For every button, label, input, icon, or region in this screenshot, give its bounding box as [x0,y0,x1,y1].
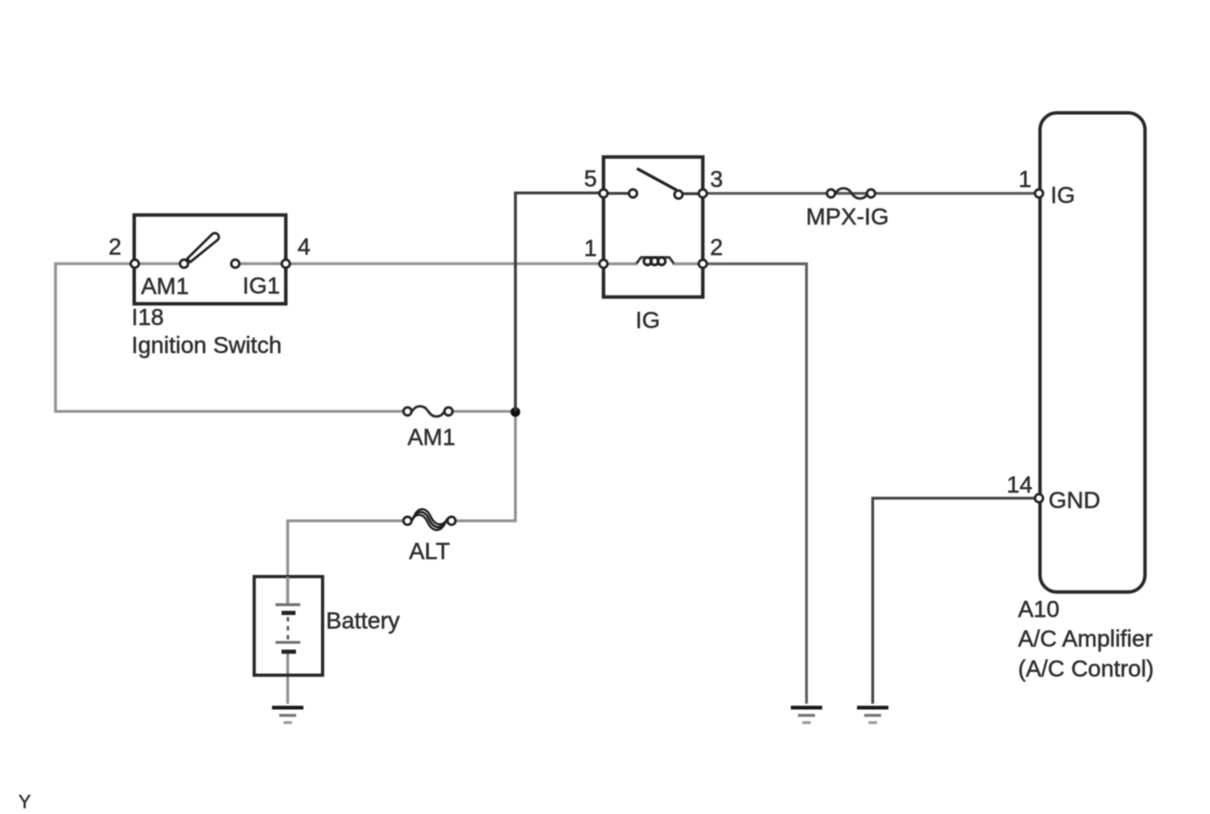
svg-text:14: 14 [1007,472,1033,498]
wire: ignition switch pin 4 to relay IG pin 1 [290,262,600,265]
terminal: relay pin 1 [599,260,607,268]
wire: battery internal top [286,577,289,603]
wire: relay IG pin 3 to amplifier pin 1 (MPX-IG net) [707,192,1035,195]
terminal: ignition AM1 contact [180,260,188,268]
wire: ignition switch pin 2 loop to fuse AM1 [56,264,403,412]
junction A [511,407,521,417]
svg-text:A/C Amplifier: A/C Amplifier [1018,626,1153,652]
svg-text:GND: GND [1049,487,1101,513]
battery plate long bottom [276,641,301,644]
terminal: relay fixed contact [629,189,637,197]
svg-text:(A/C Control): (A/C Control) [1018,656,1154,682]
wire: fuse ALT to battery positive [288,521,403,604]
wire: junction A up to relay IG pin 5 [515,193,600,412]
svg-text:2: 2 [710,234,723,260]
svg-text:2: 2 [109,234,122,260]
terminal: amplifier pin 14 GND [1035,494,1043,502]
svg-text:Ignition Switch: Ignition Switch [132,332,282,358]
wire: relay IG pin 2 to ground [707,264,807,704]
svg-text:A10: A10 [1018,596,1059,622]
svg-text:I18: I18 [132,304,164,330]
svg-text:Y: Y [19,791,31,812]
wire: relay contact row [604,192,630,195]
svg-text:AM1: AM1 [141,273,189,299]
fuse AM1 [403,406,452,416]
terminal: relay moving contact [674,191,682,199]
terminal: ignition pin 4 [282,260,290,268]
ground (battery) [272,708,303,723]
terminal: relay pin 5 [599,189,607,197]
terminal: relay pin 3 [699,189,707,197]
svg-text:5: 5 [584,166,597,192]
ground (amplifier GND) [857,708,888,723]
ignition switch I18 box [134,215,286,304]
relay switch blade [637,169,677,191]
svg-text:MPX-IG: MPX-IG [806,204,889,230]
wire: amplifier pin 14 GND to ground [873,498,1035,704]
svg-text:Battery: Battery [326,608,400,634]
battery B1 box [254,577,322,676]
battery dashed center [287,617,289,641]
terminal: amplifier pin 1 IG [1035,189,1043,197]
wire: relay coil row [604,262,638,265]
A/C amplifier A10 box [1040,113,1145,592]
svg-text:IG: IG [1051,182,1076,208]
svg-text:ALT: ALT [409,538,450,564]
wire: battery negative to ground [286,653,289,704]
svg-text:4: 4 [298,234,311,260]
svg-text:3: 3 [710,166,723,192]
ground (relay pin 2) [791,708,822,723]
fusible link ALT [403,509,455,530]
relay IG box [604,157,703,297]
fuse MPX-IG [827,188,875,198]
terminal: ignition pin 2 [131,260,139,268]
wire: junction A down to fuse ALT [456,413,515,521]
svg-text:IG: IG [636,307,661,333]
wire: fuse AM1 to junction A [454,410,514,413]
wire: ignition switch internal contacts [134,262,180,265]
battery plate long top [276,603,301,606]
svg-text:1: 1 [1019,166,1032,192]
svg-text:IG1: IG1 [243,273,281,299]
svg-text:1: 1 [584,235,597,261]
terminal: ignition IG1 contact [231,260,239,268]
battery plate short top [282,611,296,615]
switch lever SW1 (ignition) [187,233,219,262]
battery plate short bottom [282,650,297,654]
svg-text:AM1: AM1 [408,424,456,450]
relay coil L1 [637,257,674,265]
terminal: relay pin 2 [699,260,707,268]
